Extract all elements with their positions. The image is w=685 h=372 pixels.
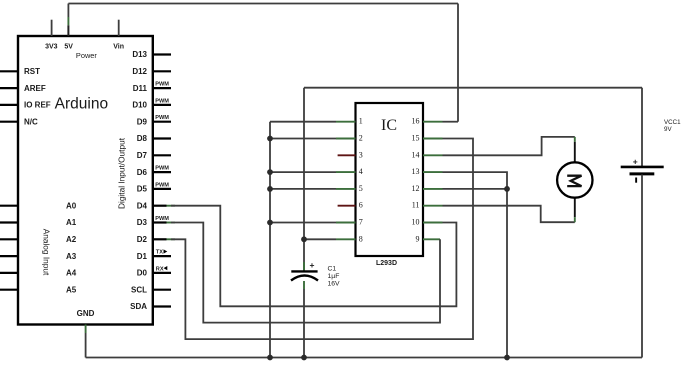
- svg-text:9: 9: [416, 234, 420, 243]
- svg-text:3: 3: [359, 150, 363, 159]
- wire IC pin12 to ground rail: [443, 188, 508, 190]
- pin D7: [137, 151, 171, 160]
- svg-text:5V: 5V: [64, 44, 73, 51]
- svg-text:1µF: 1µF: [328, 273, 340, 280]
- svg-text:TX: TX: [156, 250, 163, 256]
- svg-text:+: +: [310, 260, 315, 270]
- wire 5V to top rail: [68, 3, 458, 5]
- svg-text:PWM: PWM: [155, 115, 169, 121]
- svg-text:A4: A4: [66, 269, 77, 278]
- svg-text:7: 7: [359, 218, 363, 227]
- pin D5: [137, 182, 171, 193]
- svg-text:4: 4: [359, 167, 363, 176]
- junction on ground rail at IC pin5: [267, 186, 273, 192]
- svg-text:3V3: 3V3: [45, 44, 58, 51]
- svg-text:PWM: PWM: [155, 216, 169, 222]
- svg-text:PWM: PWM: [155, 98, 169, 104]
- pin D2: [137, 235, 175, 244]
- svg-text:IO REF: IO REF: [24, 101, 51, 110]
- svg-text:2: 2: [359, 134, 363, 143]
- pin IO REF: [0, 101, 51, 110]
- svg-text:C1: C1: [328, 266, 337, 273]
- svg-text:D1: D1: [137, 252, 148, 261]
- label C1 value: [328, 266, 341, 288]
- label VCC1 9V: [664, 119, 681, 133]
- svg-text:D4: D4: [137, 201, 148, 210]
- pin A2: [0, 235, 77, 244]
- junction pin12 ground rail: [504, 186, 510, 192]
- svg-text:Arduino: Arduino: [55, 96, 108, 113]
- svg-text:+: +: [633, 157, 638, 167]
- IC pin 1 lead: [336, 117, 363, 126]
- svg-text:16: 16: [412, 117, 420, 126]
- IC pin 6 lead unconnected: [338, 201, 363, 210]
- svg-text:D12: D12: [132, 67, 147, 76]
- svg-text:VCC1: VCC1: [664, 119, 681, 126]
- junction on ground rail at IC pin7: [267, 220, 273, 226]
- IC pin 7 lead: [336, 218, 363, 227]
- pin D1 TX: [137, 249, 171, 260]
- junction ground rail to bottom bus: [267, 355, 273, 361]
- svg-text:Vin: Vin: [113, 44, 124, 51]
- pin A0: [0, 201, 77, 210]
- svg-text:9V: 9V: [664, 126, 672, 133]
- wire IC pin8 to VCC2 rail: [304, 238, 336, 240]
- pin D9: [137, 115, 171, 126]
- svg-text:D0: D0: [137, 269, 148, 278]
- IC pin 2 lead: [336, 134, 363, 143]
- svg-text:PWM: PWM: [155, 166, 169, 172]
- svg-text:8: 8: [359, 234, 363, 243]
- motor M1: [557, 137, 592, 222]
- pin D4: [137, 201, 175, 210]
- wire IC pin16 horizontal: [443, 121, 459, 123]
- wire IC pin9 to D3: [171, 223, 440, 323]
- pin D6: [137, 166, 171, 177]
- svg-text:A2: A2: [66, 235, 77, 244]
- pin SCL: [131, 285, 171, 294]
- pin D0 RX: [137, 266, 171, 278]
- pin A3: [0, 252, 77, 261]
- pin A5: [0, 285, 77, 294]
- IC pin 5 lead: [336, 184, 363, 193]
- pin SDA: [130, 302, 171, 311]
- IC pin 8 lead: [336, 234, 363, 243]
- svg-text:10: 10: [412, 218, 420, 227]
- svg-text:D13: D13: [132, 50, 147, 59]
- svg-text:12: 12: [412, 184, 420, 193]
- IC pin 15 lead: [412, 134, 443, 143]
- svg-text:13: 13: [412, 167, 420, 176]
- IC pin 10 lead: [412, 218, 443, 227]
- svg-text:16V: 16V: [328, 281, 341, 288]
- junction on ground rail at IC pin2: [267, 136, 273, 142]
- junction ground rail to bottom bus right: [504, 355, 510, 361]
- capacitor C1: [291, 260, 318, 289]
- svg-text:L293D: L293D: [376, 260, 397, 267]
- svg-text:A3: A3: [66, 252, 77, 261]
- wire IC pin10 to D4: [171, 206, 456, 307]
- svg-text:D5: D5: [137, 185, 148, 194]
- svg-text:SCL: SCL: [131, 285, 147, 294]
- wire IC pin14 to motor top: [443, 137, 575, 155]
- op IC U2 L293D outline: [356, 103, 424, 267]
- pin 3V3: [45, 20, 58, 51]
- svg-text:GND: GND: [77, 309, 95, 318]
- pin GND: [77, 309, 95, 333]
- battery VCC1: [621, 88, 664, 358]
- IC pin 16 lead: [412, 117, 443, 126]
- pin AREF: [0, 84, 46, 93]
- IC pin 14 lead: [412, 150, 443, 159]
- IC pin 3 lead unconnected: [338, 150, 363, 159]
- pin D10: [132, 98, 171, 109]
- svg-text:PWM: PWM: [155, 182, 169, 188]
- svg-text:AREF: AREF: [24, 84, 46, 93]
- svg-text:PWM: PWM: [155, 82, 169, 88]
- svg-text:D10: D10: [132, 101, 147, 110]
- svg-text:A5: A5: [66, 285, 77, 294]
- wire VCC2 rail to battery plus: [304, 88, 642, 272]
- svg-text:5: 5: [359, 184, 363, 193]
- wire IC pin13 to GND bus: [443, 172, 508, 357]
- svg-text:D8: D8: [137, 134, 148, 143]
- svg-text:SDA: SDA: [130, 302, 147, 311]
- svg-text:D2: D2: [137, 235, 148, 244]
- pin D8: [137, 134, 171, 143]
- pin 5V: [64, 4, 73, 51]
- pin A1: [0, 218, 77, 227]
- svg-text:11: 11: [412, 201, 420, 210]
- svg-text:D9: D9: [137, 117, 148, 126]
- svg-text:D3: D3: [137, 218, 148, 227]
- svg-text:A0: A0: [66, 201, 77, 210]
- svg-text:RST: RST: [24, 67, 40, 76]
- svg-text:6: 6: [359, 201, 363, 210]
- IC pin 9 lead: [416, 234, 441, 243]
- pin A4: [0, 269, 77, 278]
- wire GND from Arduino down: [85, 333, 87, 358]
- svg-text:D7: D7: [137, 151, 148, 160]
- svg-text:15: 15: [412, 134, 420, 143]
- svg-text:14: 14: [412, 150, 420, 159]
- junction C1 to bottom bus: [301, 355, 307, 361]
- svg-text:D11: D11: [133, 84, 148, 93]
- pin Vin: [113, 20, 124, 51]
- svg-text:RX: RX: [156, 266, 164, 272]
- IC pin 13 lead: [412, 167, 443, 176]
- pin D3: [137, 216, 175, 227]
- svg-text:IC: IC: [381, 117, 397, 134]
- svg-text:Analog Input: Analog Input: [42, 229, 52, 276]
- wire IC pin11 to motor bottom: [443, 206, 575, 223]
- svg-text:Power: Power: [76, 51, 97, 60]
- wire GND bottom bus: [86, 357, 642, 359]
- pin N/C: [0, 117, 38, 126]
- wire ground rail left of IC: [270, 122, 336, 358]
- wire IC pin15 to D2: [171, 139, 473, 340]
- svg-text:Digital Input/Output: Digital Input/Output: [116, 137, 126, 209]
- wire C1 bottom to GND bus: [303, 289, 305, 358]
- junction VCC2 rail at IC pin8: [301, 236, 307, 242]
- Arduino board U1 outline: [18, 36, 153, 325]
- svg-text:1: 1: [359, 117, 363, 126]
- pin RST: [0, 67, 40, 76]
- IC pin 11 lead: [412, 201, 443, 210]
- junction on ground rail at IC pin4: [267, 169, 273, 175]
- pin D13: [132, 50, 171, 59]
- svg-text:D6: D6: [137, 168, 148, 177]
- wire top rail down to IC pin16: [457, 4, 459, 122]
- pin D11: [133, 82, 171, 93]
- svg-text:A1: A1: [66, 218, 77, 227]
- svg-text:N/C: N/C: [24, 117, 38, 126]
- IC pin 12 lead: [412, 184, 443, 193]
- pin D12: [132, 67, 171, 76]
- IC pin 4 lead: [336, 167, 363, 176]
